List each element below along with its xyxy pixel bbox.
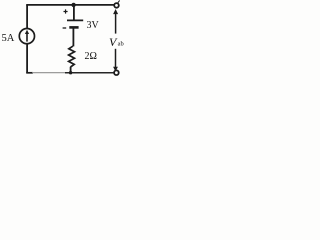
wire top horizontal <box>26 4 116 6</box>
label - <box>63 27 67 29</box>
resistor R1 2 ohm <box>69 46 75 67</box>
node junction bottom (dot) <box>69 71 72 74</box>
wire battery top lead <box>73 5 75 20</box>
current source I1 5A <box>19 28 34 43</box>
label + <box>64 9 68 13</box>
node junction top (dot) <box>71 3 75 7</box>
svg-text:5A: 5A <box>2 33 15 44</box>
arrow up toward node a <box>113 9 118 34</box>
arrow down toward node b <box>113 49 118 72</box>
battery V1 3V <box>67 20 83 27</box>
wire resistor bottom lead <box>70 67 72 73</box>
svg-text:2Ω: 2Ω <box>85 51 97 62</box>
tick above node a <box>118 0 120 3</box>
wire left vertical <box>26 5 28 73</box>
svg-text:ab: ab <box>118 41 124 48</box>
svg-text:3V: 3V <box>87 20 100 31</box>
node b terminal (bottom right) <box>114 70 119 75</box>
wire battery to resistor <box>72 27 74 46</box>
node a terminal (top right) <box>114 3 119 8</box>
wire bottom horizontal <box>26 72 33 74</box>
